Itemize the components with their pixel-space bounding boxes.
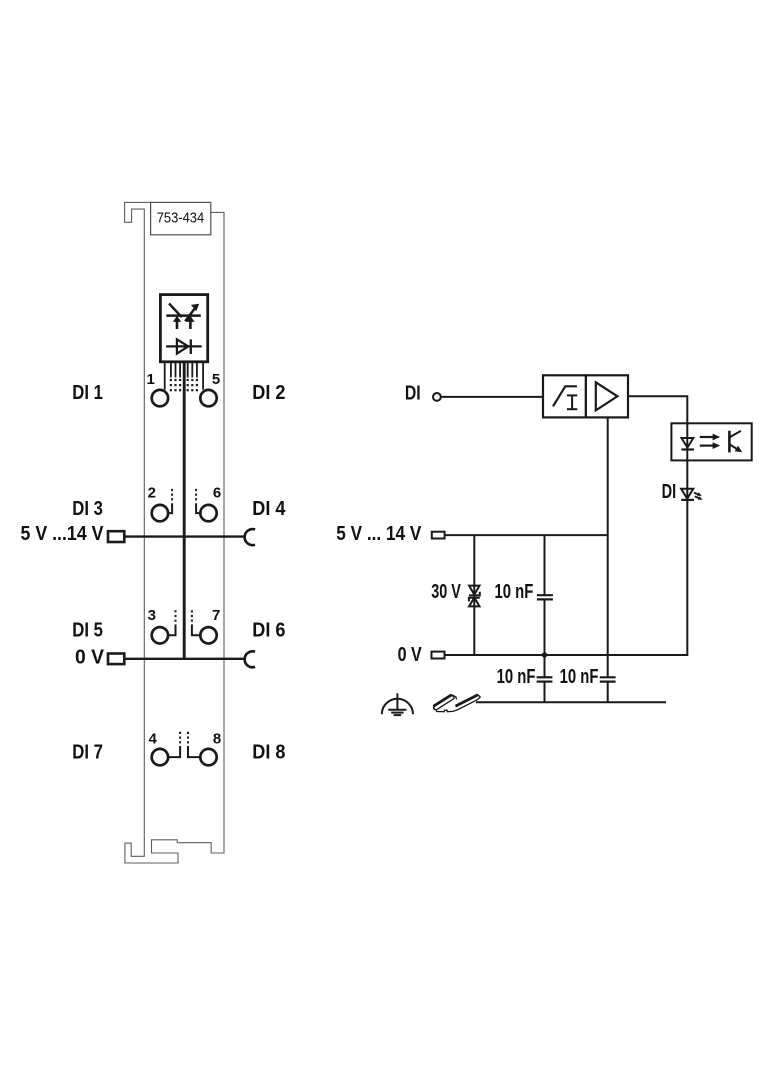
svg-text:4: 4: [149, 730, 158, 747]
LED block U1: [160, 295, 207, 362]
5V terminal box right: [432, 532, 445, 539]
svg-text:DI 8: DI 8: [252, 741, 285, 764]
5V terminal box left: [108, 531, 124, 542]
LED block diode symbol D1: [166, 345, 202, 347]
zener branch wire: [473, 535, 475, 655]
svg-text:DI 5: DI 5: [72, 619, 103, 642]
junction node: [542, 652, 547, 657]
pin 6 stub wire: [196, 503, 200, 513]
capacitor C1 10nF branch: [544, 535, 546, 595]
pin 2 stub wire: [168, 503, 172, 513]
capacitor C3 10nF plates: [600, 676, 616, 678]
svg-text:10 nF: 10 nF: [560, 665, 599, 688]
pin 8 stub wire: [188, 746, 200, 757]
buffer triangle: [596, 382, 618, 410]
svg-text:DI 2: DI 2: [252, 381, 285, 404]
svg-text:5 V ...14 V: 5 V ...14 V: [21, 522, 104, 545]
label box 753-434: [151, 202, 211, 234]
svg-text:0 V: 0 V: [75, 645, 104, 668]
0V field wire: [124, 658, 245, 660]
optocoupler box U4: [671, 423, 751, 460]
5V rail: [445, 534, 608, 536]
wire DI to filter: [441, 396, 543, 398]
ribbon wires under LED block: [165, 362, 203, 390]
wire buffer to optocoupler: [628, 396, 687, 423]
pin 3: [152, 627, 168, 643]
ribbon dot matrix: [170, 379, 198, 391]
optocoupler light arrows: [700, 436, 713, 438]
module outline 753-434 housing: [125, 202, 224, 863]
svg-text:1: 1: [147, 371, 155, 388]
earth symbol: [382, 693, 413, 715]
earth rail: [476, 701, 666, 703]
0V terminal box left: [108, 654, 124, 665]
svg-text:10 nF: 10 nF: [495, 580, 534, 603]
svg-text:6: 6: [213, 484, 221, 501]
DIN rail symbol: [433, 695, 480, 712]
svg-text:0 V: 0 V: [398, 643, 422, 666]
filter symbol ramp: [553, 386, 577, 406]
buffer block U3: [586, 375, 628, 417]
capacitor C2 10nF branch: [544, 655, 546, 677]
pin 2: [152, 505, 168, 521]
DI status LED: [681, 489, 693, 499]
svg-text:7: 7: [212, 607, 220, 624]
0V terminal box right: [432, 652, 445, 659]
svg-text:2: 2: [148, 484, 156, 501]
svg-text:DI: DI: [405, 382, 421, 405]
pin 1: [152, 390, 168, 406]
svg-text:DI 7: DI 7: [72, 741, 103, 764]
svg-text:DI 4: DI 4: [252, 497, 286, 520]
svg-text:753-434: 753-434: [157, 211, 205, 227]
0V clamp contact: [245, 651, 255, 667]
pin 6: [200, 505, 216, 521]
svg-text:30 V: 30 V: [431, 580, 461, 603]
DI LED light arrows: [694, 493, 700, 495]
suppressor diode 30V: [469, 586, 479, 595]
5V field wire: [124, 535, 245, 537]
pin 4: [152, 749, 168, 765]
pin 7: [200, 627, 216, 643]
pin 8: [200, 749, 216, 765]
DI input terminal circle: [433, 393, 441, 401]
LED block top symbol (indicator arrows): [166, 304, 201, 322]
wire through optocoupler: [686, 423, 688, 460]
svg-text:3: 3: [148, 607, 156, 624]
svg-text:5 V ... 14 V: 5 V ... 14 V: [336, 522, 421, 545]
pin 5: [200, 390, 216, 406]
optocoupler LED: [682, 438, 694, 448]
svg-text:8: 8: [213, 730, 221, 747]
svg-text:5: 5: [212, 371, 220, 388]
wire buffer down to 5V rail: [607, 417, 609, 677]
5V clamp contact: [245, 529, 255, 545]
0V rail: [445, 654, 689, 656]
filter block U2: [543, 375, 586, 417]
wire optocoupler to 0V rail: [686, 460, 688, 655]
svg-text:DI: DI: [662, 480, 677, 503]
pin 7 stub wire: [192, 624, 201, 635]
filter symbol I: [567, 395, 577, 409]
svg-text:10 nF: 10 nF: [497, 665, 536, 688]
pin 4 stub wire: [168, 746, 180, 757]
pin 3 stub wire: [168, 624, 175, 635]
svg-text:DI 1: DI 1: [72, 381, 103, 404]
optocoupler phototransistor: [728, 431, 731, 453]
svg-text:DI 6: DI 6: [252, 619, 285, 642]
svg-text:DI 3: DI 3: [72, 497, 103, 520]
bus wire (thick center): [183, 362, 186, 660]
